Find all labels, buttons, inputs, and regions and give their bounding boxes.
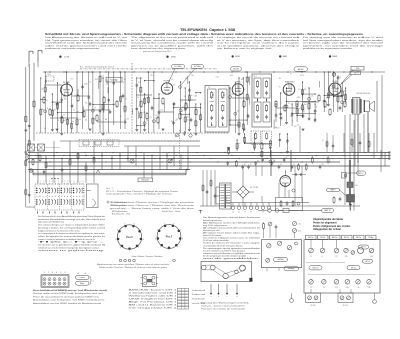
capacitor C6 <box>122 94 125 96</box>
svg-text:8p: 8p <box>297 124 299 126</box>
resistor R11 <box>140 102 142 107</box>
dial block tick <box>200 210 202 214</box>
heavy vertical pair A <box>270 150 272 176</box>
svg-text:25: 25 <box>73 110 75 112</box>
svg-text:50: 50 <box>238 212 240 214</box>
svg-text:correspondant 20 kO de résista: correspondant 20 kO de résistance intern… <box>203 244 243 247</box>
svg-text:UKW möglich bei DR 1: UKW möglich bei DR 1 <box>129 298 177 300</box>
trimmer above EL84 <box>332 73 335 76</box>
svg-text:MW Osz: MW Osz <box>313 268 319 270</box>
svg-text:Toutes les valeurs ont mesurée: Toutes les valeurs ont mesurée s avec eq… <box>203 242 261 245</box>
svg-text:100: 100 <box>101 76 104 78</box>
svg-text:1k: 1k <box>290 116 292 118</box>
resistor R4 <box>49 110 51 115</box>
svg-text:FM Osz: FM Osz <box>308 237 313 239</box>
svg-text:Ud. 5pö gemessen wurden, im un: Ud. 5pö gemessen wurden, im unset die Ob… <box>45 39 128 42</box>
matrix end box <box>87 184 99 208</box>
svg-text:Anschlussseite – Gnöl: Anschlussseite – Gnöl <box>112 212 130 215</box>
svg-text:5n: 5n <box>292 121 294 123</box>
align trimmer B6 <box>367 280 372 285</box>
sub-bus right few <box>299 126 301 152</box>
wire mid verticals <box>37 153 39 184</box>
svg-text:Le commutateur à clavier est d: Le commutateur à clavier est dessiné en … <box>38 232 105 235</box>
svg-text:47: 47 <box>63 114 65 116</box>
wire left edge 3 <box>33 63 35 141</box>
svg-text:L1: L1 <box>310 256 312 258</box>
svg-text:50: 50 <box>232 212 234 214</box>
chassis dashed divider <box>131 63 133 133</box>
align trimmer B2 <box>322 280 327 285</box>
left panel stems <box>266 268 268 271</box>
wire label leads right <box>341 70 353 84</box>
drop circle right <box>373 300 377 304</box>
svg-text:oder rechts gemessenen und nie: oder rechts gemessenen und niet mehr <box>45 44 128 47</box>
svg-text:EF89: EF89 <box>236 82 242 84</box>
svg-text:47: 47 <box>120 116 122 118</box>
wire label leads <box>169 69 176 83</box>
svg-text:7026 504 008 900 Wg: 7026 504 008 900 Wg <box>356 93 370 95</box>
svg-text:2k2: 2k2 <box>302 91 305 93</box>
ground stage1 a <box>56 128 59 130</box>
capacitor C14 <box>339 106 342 108</box>
capacitor C15 <box>61 168 64 170</box>
svg-text:L11: L11 <box>335 287 338 289</box>
svg-text:Führung des Skalenzeigers und: Führung des Skalenzeigers und Seil- <box>201 302 249 304</box>
svg-text:500: 500 <box>93 119 96 121</box>
antenna A1 <box>28 51 30 62</box>
svg-text:5n: 5n <box>238 119 240 121</box>
svg-text:5k6: 5k6 <box>64 98 67 100</box>
svg-text:1k: 1k <box>116 105 118 107</box>
resistor R2c <box>25 161 27 166</box>
svg-text:Le réglage du circuit de mesur: Le réglage du circuit de mesure en coura… <box>217 36 300 39</box>
align trimmer A5 <box>351 251 355 255</box>
svg-text:70: 70 <box>279 86 281 88</box>
connector pins row2 <box>43 282 46 285</box>
tube V1 ECC85 <box>61 84 73 96</box>
svg-text:10k: 10k <box>85 119 88 121</box>
wire right verticals <box>344 115 346 205</box>
svg-text:0,25: 0,25 <box>75 95 78 97</box>
svg-text:0,25: 0,25 <box>216 77 219 79</box>
ground stage1 b <box>89 128 92 130</box>
svg-text:16: 16 <box>250 212 252 214</box>
wire left edge 1 <box>25 67 27 182</box>
wire power drops <box>225 196 227 203</box>
svg-text:100: 100 <box>272 158 275 160</box>
svg-text:gemeten, en werden met de over: gemeten, en werden met de overige <box>303 44 385 47</box>
aux oval 1 <box>76 275 90 279</box>
svg-text:BMP 10: BMP 10 <box>325 210 331 212</box>
node trimmer dot <box>179 86 182 89</box>
svg-text:82 V: 82 V <box>230 75 233 77</box>
svg-text:ZF: ZF <box>208 87 210 89</box>
capacitor C13 <box>314 118 317 120</box>
svg-text:10,7 MHz: 10,7 MHz <box>194 66 201 68</box>
svg-text:L7: L7 <box>322 256 324 258</box>
aux bracket <box>90 276 91 285</box>
svg-text:5k6: 5k6 <box>126 119 129 121</box>
svg-text:9: 9 <box>138 247 139 249</box>
svg-text:Aansluitdoos van het NSW, word: Aansluitdoos van het NSW, worden en blin… <box>33 302 101 305</box>
svg-text:47: 47 <box>285 157 287 159</box>
align trimmer B3 <box>334 280 339 285</box>
svg-text:500: 500 <box>337 93 340 95</box>
dots row left <box>51 178 52 179</box>
svg-text:2k2: 2k2 <box>124 98 127 100</box>
svg-text:0,25: 0,25 <box>299 108 302 110</box>
resistor R2 <box>33 102 35 107</box>
fuse Si1 <box>268 209 272 213</box>
svg-text:Die Spannungswerte sind auf di: Die Spannungswerte sind auf dieser Seele… <box>203 216 261 219</box>
svg-text:b: b <box>218 296 219 298</box>
svg-text:47: 47 <box>298 89 300 91</box>
svg-text:C44: C44 <box>346 287 349 289</box>
dial scale bar <box>33 172 186 174</box>
resistor R5 <box>61 118 63 123</box>
resistor R12 <box>146 114 148 119</box>
alignment left panel <box>262 240 302 268</box>
aux oval 2 <box>76 281 90 285</box>
capacitor C8 <box>173 102 176 104</box>
svg-text:4: 4 <box>117 230 118 232</box>
svg-text:20 kO par volt de sensibilité.: 20 kO par volt de sensibilité. <box>203 239 230 242</box>
long bottom bus <box>200 205 360 207</box>
tube socket Pos5 <box>117 225 141 249</box>
oval label mid2 <box>347 266 360 270</box>
output transformer T4 <box>353 98 361 115</box>
label box 10.7MHz a <box>172 64 185 68</box>
svg-text:kilo-ohms per volt.: kilo-ohms per volt. <box>203 229 220 232</box>
align trimmer B1 <box>309 280 314 285</box>
svg-text:220: 220 <box>247 117 250 119</box>
svg-text:Seite zu der Chassis / Bottom: Seite zu der Chassis / Bottom of chassis… <box>99 266 167 269</box>
svg-text:8p: 8p <box>244 164 246 166</box>
svg-text:7026: 7026 <box>356 68 360 70</box>
relay box <box>142 275 156 287</box>
svg-text:et V en tension, de 5pö, doit: et V en tension, de 5pö, doit être consi… <box>217 39 301 42</box>
svg-text:Anschlußdose für NSW (Lautspr.: Anschlußdose für NSW (Lautspr. und Blind… <box>33 289 108 292</box>
mid components row <box>26 155 28 160</box>
align trimmer A4 <box>344 248 348 252</box>
mid bus left <box>60 140 200 142</box>
legend bullet GRM <box>232 55 234 57</box>
ratio det T3 <box>251 131 261 145</box>
junction dots mid <box>37 155 38 156</box>
alignment main panel <box>304 240 380 293</box>
align trimmer A2 <box>320 248 325 253</box>
svg-text:4: 4 <box>56 271 57 274</box>
tuning gang CB <box>38 144 45 151</box>
svg-text:C52: C52 <box>298 231 301 233</box>
gang link dashed <box>35 147 38 149</box>
svg-text:5k6: 5k6 <box>185 104 188 106</box>
svg-text:6: 6 <box>173 223 174 225</box>
align trimmer B5 <box>356 280 361 285</box>
svg-text:1k: 1k <box>293 81 295 83</box>
svg-text:50p: 50p <box>284 91 287 93</box>
svg-text:Alle Meßwerte sind in der Wiäd: Alle Meßwerte sind in der Wiäderstellche… <box>203 221 260 224</box>
tube V2 ECH81 <box>161 83 172 94</box>
svg-text:L14: L14 <box>357 287 360 289</box>
label BMP9 oval <box>327 188 340 191</box>
svg-text:moeten verschillende en gelijk: moeten verschillende en gelijke waarden … <box>203 252 260 255</box>
svg-text:LW Osz: LW Osz <box>351 267 356 269</box>
capacitor C17 <box>299 173 301 176</box>
capacitor C16 <box>294 173 296 176</box>
socket dots row <box>119 259 122 262</box>
svg-text:L50: L50 <box>298 224 301 226</box>
resistor R3 <box>43 98 45 103</box>
dial knob box <box>249 278 252 282</box>
connector box <box>41 275 69 287</box>
svg-text:RöhrVf.-Fass. – Unters: RöhrVf.-Fass. – Unters <box>162 210 180 213</box>
capacitor C1 <box>28 124 31 126</box>
svg-text:All voltages measured with an: All voltages measured with an instrument… <box>203 226 261 229</box>
svg-text:BMP 9: BMP 9 <box>331 190 336 192</box>
svg-text:9: 9 <box>177 247 178 249</box>
svg-text:5n: 5n <box>146 120 148 122</box>
svg-text:705: 705 <box>354 73 357 75</box>
svg-text:0,1: 0,1 <box>46 100 48 102</box>
capacitor above EL84 <box>337 76 340 78</box>
label box right a <box>351 66 364 70</box>
resistor R24 <box>324 102 326 107</box>
svg-text:1k: 1k <box>137 97 139 99</box>
capacitor C4 <box>89 102 92 104</box>
svg-text:500: 500 <box>344 90 347 92</box>
svg-text:10k: 10k <box>85 103 88 105</box>
label MP10 oval <box>357 171 366 175</box>
lamp dashed box <box>79 140 119 147</box>
tube V4 EABC80 <box>283 84 295 96</box>
svg-text:Aansluitdoos voor luidspreker: Aansluitdoos voor luidspreker met NSW en… <box>33 299 106 302</box>
svg-text:460 kHz: 460 kHz <box>233 69 239 71</box>
antenna A2 <box>37 50 39 62</box>
svg-text:Pos.5: Pos.5 <box>126 236 133 239</box>
svg-text:gemessen bei Netzspannung 220: gemessen bei Netzspannung 220 V~ <box>143 50 173 53</box>
align trimmer B4 <box>345 280 350 285</box>
dial pulley 4 <box>235 270 238 273</box>
bottom bus power <box>226 202 309 204</box>
svg-text:8p: 8p <box>99 119 101 121</box>
svg-text:B 1 – Bereichumschaltung der T: B 1 – Bereichumschaltung der Tasten <box>80 65 114 68</box>
svg-text:UKW: UKW <box>171 57 176 59</box>
svg-text:mêlée. En appuyant les touches: mêlée. En appuyant les touches du disque… <box>38 235 105 238</box>
long bus 3 <box>28 158 390 160</box>
heavy vertical pair B <box>290 150 292 172</box>
svg-text:100: 100 <box>54 110 57 112</box>
bus component strip <box>226 162 229 164</box>
svg-text:215 V: 215 V <box>47 74 51 76</box>
svg-text:170 V: 170 V <box>150 75 154 77</box>
svg-text:Unten / Bottom / Dessous / Ben: Unten / Bottom / Dessous / Beneden <box>132 255 163 258</box>
svg-text:1: 1 <box>44 272 45 274</box>
capacitor C9 <box>190 118 193 120</box>
svg-text:5k6: 5k6 <box>105 119 108 121</box>
capacitor C3 <box>71 104 74 106</box>
switch box <box>283 209 289 213</box>
align trimmer A6 <box>369 248 374 253</box>
circle comp mid <box>189 134 192 137</box>
oval label MP10b <box>363 259 373 263</box>
svg-text:Parcours du cordon de commande: Parcours du cordon de commande <box>201 308 246 310</box>
svg-text:2: 2 <box>47 272 49 274</box>
long bus 2 <box>28 155 390 157</box>
dial pointer <box>96 170 100 173</box>
pre-panel comps <box>263 224 265 229</box>
svg-text:7: 7 <box>180 229 181 231</box>
svg-text:1k: 1k <box>47 108 49 110</box>
svg-text:ZF 10,7: ZF 10,7 <box>343 305 348 307</box>
dial pulley 3 <box>223 273 228 278</box>
wire tube V1 top <box>66 72 68 84</box>
svg-text:1k: 1k <box>57 120 59 122</box>
terminal circles right <box>388 152 390 154</box>
matrix contact rows <box>36 188 37 189</box>
svg-text:47: 47 <box>297 110 299 112</box>
svg-text:2k2: 2k2 <box>173 85 176 87</box>
long bus 6 <box>28 169 190 171</box>
svg-text:produzierte und wurde eingenom: produzierte und wurde eingenommenen. <box>45 47 101 50</box>
capacitor C5 <box>109 110 112 112</box>
resistor R23 <box>318 96 320 101</box>
electrolytic C19 <box>347 182 353 188</box>
svg-text:70: 70 <box>290 73 292 75</box>
svg-text:a: a <box>211 296 212 298</box>
svg-text:crovers à contacts seulement s: crovers à contacts seulement se déplacen… <box>38 238 96 241</box>
node dot a <box>66 71 68 73</box>
svg-text:GRM: GRM <box>235 56 240 58</box>
left lower verticals <box>25 182 27 207</box>
svg-text:1: 1 <box>169 250 170 252</box>
top bus junction dots <box>49 71 50 72</box>
svg-text:3: 3 <box>155 238 156 240</box>
top supply bus <box>43 71 385 73</box>
chassis frame power <box>276 198 303 211</box>
svg-text:50: 50 <box>176 119 178 121</box>
svg-text:tung 20 kO aufgenommen.: tung 20 kO aufgenommen. <box>203 224 228 227</box>
extra stubs band <box>98 81 100 88</box>
svg-text:1k: 1k <box>171 79 173 81</box>
svg-text:0,25: 0,25 <box>41 89 44 91</box>
svg-text:5n: 5n <box>280 164 282 166</box>
svg-text:sur le récepteur aux valeurs d: sur le récepteur aux valeurs de l autre <box>217 42 301 45</box>
antenna drop wires <box>28 62 30 67</box>
resistor R15 <box>179 114 181 119</box>
tube socket Pos7 <box>157 225 181 249</box>
svg-text:3n: 3n <box>191 95 193 97</box>
drop circle left <box>290 299 294 303</box>
svg-text:Socket outlet at the NSW (add.: Socket outlet at the NSW (add. loudspeak… <box>33 292 104 295</box>
label box AM osc <box>294 67 308 72</box>
label box 10.7MHz b <box>191 64 204 68</box>
capacitor C12 <box>302 114 305 116</box>
svg-text:Die Abmessung der Ströme in mA: Die Abmessung der Ströme in mA und in V,… <box>45 36 128 39</box>
trimmer P1 <box>267 244 271 248</box>
svg-text:bridges will move in the direc: bridges will move in the direction of th… <box>38 229 80 232</box>
sub-bus components center <box>228 147 230 150</box>
trimmer P3 <box>287 245 291 249</box>
wire stage1 mesh <box>40 78 42 133</box>
svg-text:Pos.7: Pos.7 <box>166 236 173 239</box>
svg-text:220: 220 <box>160 109 163 111</box>
dial stems <box>210 284 212 293</box>
resistor R17 <box>195 110 197 115</box>
IF can T1 <box>205 86 229 133</box>
svg-text:70: 70 <box>250 164 252 166</box>
svg-text:0,25: 0,25 <box>277 127 280 129</box>
svg-text:devices as to qualifier positi: devices as to qualifier position, with t… <box>131 44 215 47</box>
svg-text:ou le qualifier position, obse: ou le qualifier position, observé des ch… <box>217 44 301 47</box>
rectifier bridge GR1 <box>237 186 249 198</box>
wire stage3 mesh <box>229 88 231 125</box>
svg-text:3n: 3n <box>344 95 346 97</box>
capacitor C15b <box>43 170 46 172</box>
svg-text:25: 25 <box>262 212 264 214</box>
svg-text:2: 2 <box>160 247 161 249</box>
svg-text:10,7 MHz: 10,7 MHz <box>174 66 181 68</box>
svg-text:30p: 30p <box>171 121 174 123</box>
trimmer column <box>293 222 297 226</box>
svg-text:6: 6 <box>134 224 135 226</box>
capacitor C2 <box>56 102 59 104</box>
capacitor C10 <box>247 114 250 116</box>
svg-text:Blindw.: Blindw. <box>80 283 85 285</box>
svg-text:2k2: 2k2 <box>63 120 66 122</box>
trimmer top mid <box>175 133 179 137</box>
svg-text:produktie en de ingenomen waar: produktie en de ingenomen waarden. <box>303 47 354 50</box>
svg-text:5: 5 <box>60 272 61 274</box>
svg-text:C31: C31 <box>345 256 348 258</box>
svg-text:3n: 3n <box>123 82 125 84</box>
magic eye EM80 <box>280 176 291 187</box>
oval label UKW <box>274 258 288 262</box>
svg-text:measuring the conditions made: measuring the conditions made with its c… <box>131 42 214 45</box>
electrolytic row <box>232 203 234 207</box>
svg-text:MP 10: MP 10 <box>365 261 369 263</box>
svg-text:Abschirmung von unten gesehen: Abschirmung von unten gesehen / Bottom v… <box>97 263 169 266</box>
legend bullet NSW <box>329 55 331 57</box>
pilot lamp La1 <box>29 169 33 173</box>
svg-text:0,1: 0,1 <box>181 111 183 113</box>
wire spk drop <box>367 112 369 152</box>
svg-text:AM 460: AM 460 <box>298 68 304 71</box>
label box 460kHz <box>231 67 242 71</box>
svg-text:einzelnen Betriebsfällen beweg: einzelnen Betriebsfällen bewegt sich der… <box>38 218 105 221</box>
svg-text:0,25: 0,25 <box>311 96 314 98</box>
svg-text:12k: 12k <box>78 119 81 121</box>
align trimmer A1 <box>309 248 314 253</box>
svg-text:verlauf – Drive cord and point: verlauf – Drive cord and pointer <box>201 304 246 307</box>
legend bullet UKW <box>166 56 168 58</box>
drop box 1 <box>306 293 321 303</box>
align circle big <box>358 248 364 254</box>
svg-text:85 V: 85 V <box>95 79 98 81</box>
svg-text:GR 770 RS: GR 770 RS <box>250 187 258 189</box>
svg-text:d: d <box>237 296 238 298</box>
svg-text:12k: 12k <box>156 115 159 117</box>
svg-text:500: 500 <box>294 126 297 128</box>
svg-text:L2: L2 <box>310 287 312 289</box>
svg-text:Schaltbild mit Strom- und Span: Schaltbild mit Strom- und Spannungswerte… <box>45 33 364 36</box>
resistor R6 <box>77 96 79 101</box>
svg-text:100: 100 <box>191 75 194 77</box>
resistor R7 <box>83 112 85 117</box>
ground left <box>24 129 27 131</box>
svg-text:ECH81: ECH81 <box>164 81 172 83</box>
resistor R22 <box>308 104 310 109</box>
